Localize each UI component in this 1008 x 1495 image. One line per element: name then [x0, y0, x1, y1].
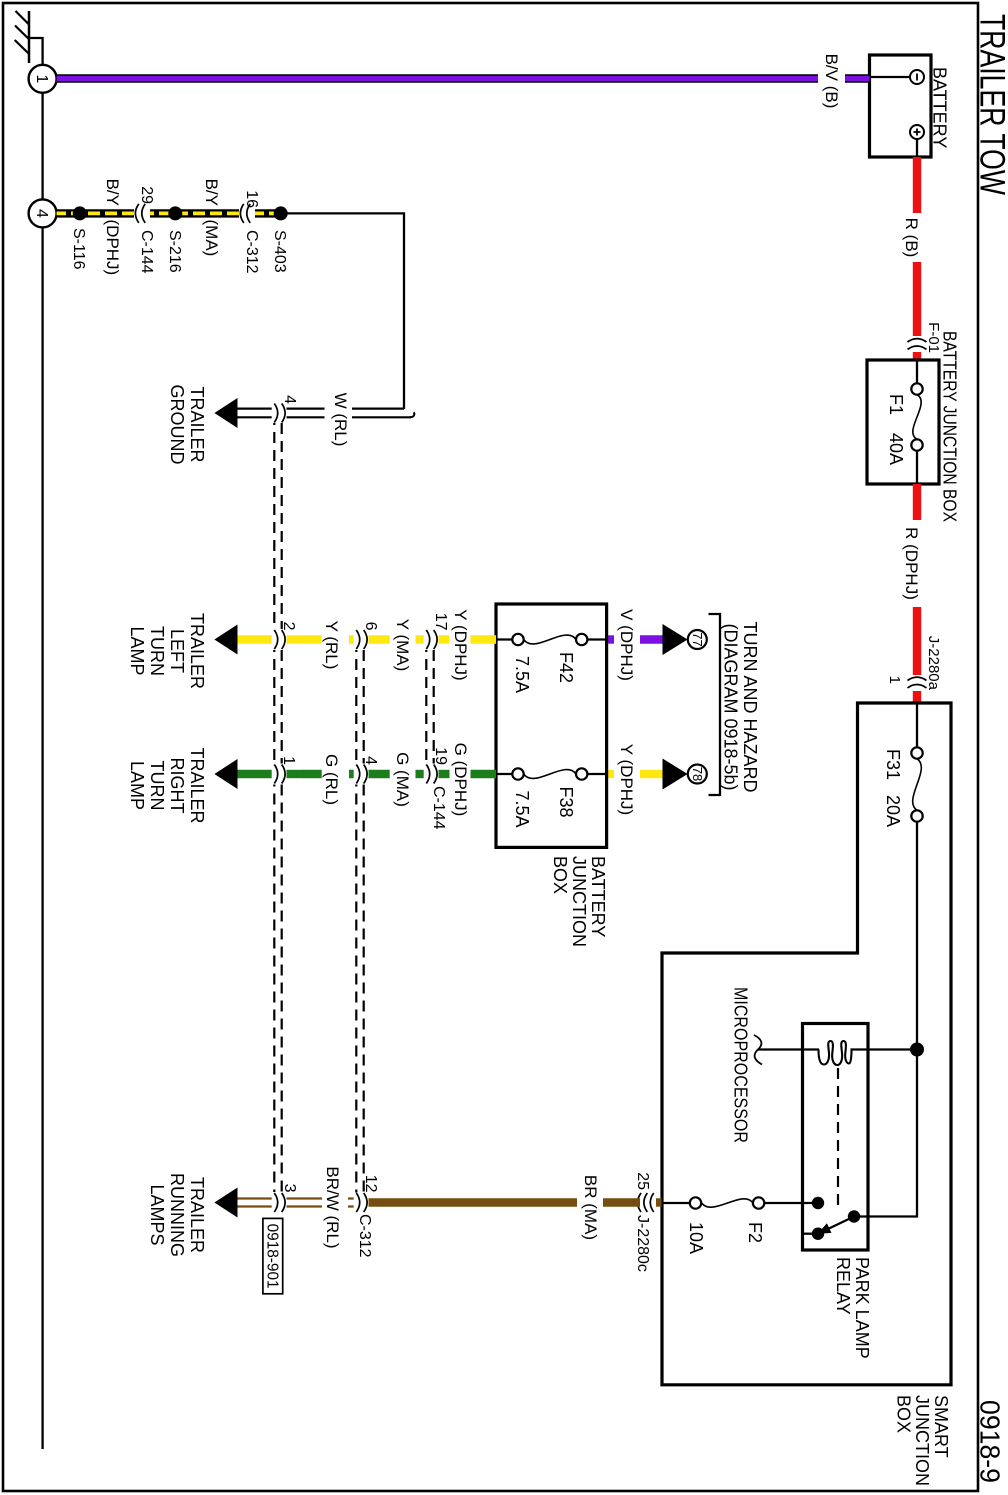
wire Y (RL) to arrow — [238, 635, 272, 643]
wire ground jog to node 1 — [28, 38, 43, 64]
wire Y (RL) — [287, 635, 354, 643]
wire G (DPHJ) from F38 — [439, 770, 497, 778]
connector J-2280c pin 25 — [634, 1172, 662, 1272]
node 78 (from turn and hazard diagram) — [688, 765, 707, 784]
trailer connector pin 2 — [274, 622, 297, 649]
svg-text:40A: 40A — [886, 433, 906, 465]
svg-text:C-144: C-144 — [430, 786, 447, 830]
svg-text:F-01: F-01 — [925, 322, 942, 353]
battery — [870, 55, 950, 157]
svg-text:7.5A: 7.5A — [512, 791, 532, 828]
svg-text:G (RL): G (RL) — [322, 754, 341, 805]
svg-text:W (RL): W (RL) — [331, 393, 350, 447]
svg-text:S-216: S-216 — [166, 230, 183, 273]
fuse F31 20A — [883, 703, 923, 827]
svg-text:V (DPHJ): V (DPHJ) — [617, 609, 636, 681]
svg-text:RELAY: RELAY — [833, 1257, 853, 1315]
svg-text:Y (RL): Y (RL) — [322, 621, 341, 670]
relay output contact to F2 — [764, 1197, 824, 1209]
svg-text:Y (DPHJ): Y (DPHJ) — [451, 609, 470, 680]
svg-text:(DPHJ): (DPHJ) — [103, 220, 122, 276]
trailer connector dashed line (pins 4-2-1-3) — [274, 423, 281, 1192]
svg-text:LAMP: LAMP — [127, 761, 147, 810]
connector F-01 — [908, 322, 943, 353]
svg-text:TRAILER: TRAILER — [187, 613, 207, 689]
connector C-144 pin 29 — [135, 186, 155, 273]
arrow from node 77 — [663, 624, 688, 655]
svg-text:0918-9: 0918-9 — [975, 1400, 1006, 1483]
svg-text:10A: 10A — [686, 1222, 706, 1254]
node 77 (from turn and hazard diagram) — [688, 630, 707, 649]
svg-text:4: 4 — [362, 756, 379, 765]
svg-text:BATTERY: BATTERY — [588, 856, 608, 937]
battery junction box (F42/F38) — [496, 604, 608, 947]
fuse F2 10A — [662, 1197, 765, 1254]
connector C-312 pin 6 — [356, 622, 379, 649]
svg-text:29: 29 — [138, 186, 155, 204]
battery negative terminal — [870, 70, 925, 84]
svg-text:20A: 20A — [883, 795, 903, 827]
svg-text:SMART: SMART — [931, 1395, 951, 1458]
svg-text:C-144: C-144 — [138, 230, 155, 274]
connector C-312 pin 4 — [356, 756, 379, 783]
junction node (dot) feeding relay coil — [910, 1043, 924, 1057]
svg-text:C-312: C-312 — [356, 1214, 373, 1258]
trailer connector pin 3 — [274, 1184, 298, 1212]
svg-text:3: 3 — [281, 1184, 298, 1193]
svg-text:TRAILER TOW: TRAILER TOW — [973, 14, 1008, 195]
trailer connector pin 4 — [274, 395, 298, 422]
splice S-403 — [271, 206, 288, 272]
svg-text:BOX: BOX — [550, 856, 570, 894]
svg-text:TURN AND HAZARD: TURN AND HAZARD — [740, 621, 760, 792]
fuse F38 7.5A — [496, 768, 607, 827]
splice S-216 — [166, 206, 183, 272]
relay coil lead to microprocessor — [758, 1048, 819, 1050]
wire Y (DPHJ) from F42 — [439, 635, 497, 643]
wire junction to relay coil — [851, 1048, 918, 1050]
svg-text:17: 17 — [432, 613, 449, 631]
svg-text:77: 77 — [690, 632, 705, 646]
svg-text:J-2280a: J-2280a — [925, 636, 942, 691]
svg-text:S-403: S-403 — [271, 230, 288, 273]
wire B/V (B) from battery negative to node 1 — [57, 74, 870, 83]
svg-text:4: 4 — [33, 209, 50, 218]
connector C-312 dashed line (pins 6-4-12) — [356, 650, 363, 1193]
svg-text:TRAILER: TRAILER — [187, 747, 207, 823]
svg-text:19: 19 — [432, 747, 449, 765]
svg-text:TURN: TURN — [147, 626, 167, 676]
arrow to trailer running lamps — [214, 1188, 237, 1218]
arrow to trailer right turn lamp — [214, 759, 237, 789]
connector C-144 dashed line (pins 17-19) — [426, 650, 433, 764]
battery junction box (F1) — [867, 331, 960, 522]
connector label box 0918-901 — [263, 1218, 283, 1293]
relay common contact — [848, 1210, 860, 1222]
svg-text:Y (DPHJ): Y (DPHJ) — [617, 744, 636, 815]
svg-text:J-2280c: J-2280c — [634, 1215, 651, 1272]
svg-text:JUNCTION: JUNCTION — [912, 1395, 932, 1486]
label TRAILER RUNNING LAMPS — [147, 1173, 207, 1257]
svg-text:B/V (B): B/V (B) — [822, 54, 841, 109]
svg-text:MICROPROCESSOR: MICROPROCESSOR — [731, 987, 751, 1143]
svg-text:BR/W (RL): BR/W (RL) — [323, 1166, 342, 1248]
wire G (RL) — [287, 770, 354, 778]
svg-text:PARK LAMP: PARK LAMP — [852, 1257, 872, 1359]
connector C-312 pin 12 — [356, 1175, 379, 1258]
svg-text:LAMPS: LAMPS — [147, 1184, 167, 1245]
wire ground bus long segment — [41, 227, 43, 1449]
wire Y (DPHJ) to fuse F38 — [607, 770, 663, 778]
trailer connector pin 1 — [274, 756, 297, 783]
svg-text:F1: F1 — [886, 394, 906, 415]
svg-text:1: 1 — [886, 676, 903, 684]
smart junction box outline — [662, 703, 951, 1486]
node 1 (ground circle 1) — [29, 65, 57, 93]
svg-text:(DIAGRAM 0918-5b): (DIAGRAM 0918-5b) — [721, 623, 741, 790]
wire R (B) battery to battery junction box — [913, 157, 921, 360]
svg-text:BR (MA): BR (MA) — [581, 1175, 600, 1240]
wire V (DPHJ) to fuse F42 — [607, 635, 663, 643]
relay actuation dashed link — [837, 1068, 839, 1207]
arrow from node 78 — [663, 759, 688, 790]
svg-text:G (MA): G (MA) — [393, 752, 412, 807]
svg-text:TURN: TURN — [147, 761, 167, 811]
fuse F42 7.5A — [496, 634, 607, 693]
wire thin link S-403 to trailer ground drop — [281, 213, 404, 409]
microprocessor squiggle — [754, 1035, 762, 1065]
svg-text:R (DPHJ): R (DPHJ) — [902, 527, 921, 600]
svg-text:R (B): R (B) — [902, 218, 921, 258]
relay NO contact to box edge — [803, 1228, 825, 1240]
svg-text:B/Y: B/Y — [103, 179, 122, 206]
svg-text:7.5A: 7.5A — [512, 656, 532, 693]
wire W (RL) trailer ground (white wire) — [237, 409, 414, 418]
svg-text:BOX: BOX — [894, 1395, 914, 1433]
wire F31 to relay common — [854, 822, 917, 1217]
svg-text:1: 1 — [33, 74, 50, 83]
turn and hazard source bracket — [709, 614, 761, 795]
svg-text:F38: F38 — [556, 787, 576, 818]
connector J-2280a pin 1 — [886, 636, 942, 691]
svg-text:B/Y: B/Y — [202, 179, 221, 206]
svg-text:LAMP: LAMP — [127, 626, 147, 675]
svg-text:GROUND: GROUND — [167, 385, 187, 465]
wire Y (MA) — [369, 635, 424, 643]
relay coil — [819, 1041, 852, 1065]
arrow to trailer ground — [214, 398, 237, 428]
relay blade with arrow — [819, 1217, 854, 1234]
svg-text:6: 6 — [362, 622, 379, 631]
svg-text:TRAILER: TRAILER — [187, 1177, 207, 1253]
label TRAILER LEFT TURN LAMP — [127, 613, 207, 689]
arrow to trailer left turn lamp — [214, 625, 237, 655]
svg-text:RIGHT: RIGHT — [167, 758, 187, 814]
svg-text:JUNCTION: JUNCTION — [569, 856, 589, 947]
ground symbol (chassis ground, bottom-left) — [15, 11, 29, 63]
svg-text:F31: F31 — [883, 749, 903, 780]
svg-text:LEFT: LEFT — [167, 629, 187, 673]
wire G (MA) — [369, 770, 424, 778]
fuse F1 40A — [886, 360, 923, 484]
svg-text:78: 78 — [690, 767, 705, 781]
svg-text:S-116: S-116 — [70, 228, 87, 270]
svg-text:(MA): (MA) — [202, 220, 221, 257]
svg-text:Y (MA): Y (MA) — [393, 619, 412, 672]
label TRAILER RIGHT TURN LAMP — [127, 747, 207, 823]
svg-text:2: 2 — [280, 622, 297, 631]
wire B/Y ground chain from node 4 — [57, 209, 281, 217]
wire R (DPHJ) to smart junction box — [913, 484, 921, 703]
wire BR/W (RL) to trailer running lamps (double line) — [238, 1199, 354, 1207]
connector C-144 pin 17 — [426, 613, 449, 830]
wire BR (MA) running lamps feed — [369, 1198, 641, 1206]
svg-text:F42: F42 — [556, 652, 576, 683]
node 4 (ground circle 4) — [29, 199, 57, 227]
svg-text:G (DPHJ): G (DPHJ) — [451, 743, 470, 817]
svg-text:BATTERY JUNCTION BOX: BATTERY JUNCTION BOX — [940, 331, 960, 522]
svg-text:BATTERY: BATTERY — [930, 67, 950, 148]
svg-text:1: 1 — [280, 756, 297, 765]
connector C-312 pin 16 — [240, 190, 260, 273]
svg-text:RUNNING: RUNNING — [167, 1173, 187, 1257]
svg-text:16: 16 — [243, 190, 260, 208]
svg-text:25: 25 — [634, 1172, 651, 1190]
svg-text:0918-901: 0918-901 — [264, 1224, 281, 1289]
wire G (RL) to arrow — [238, 770, 272, 778]
battery positive terminal — [910, 125, 924, 157]
svg-text:4: 4 — [281, 395, 298, 404]
svg-text:C-312: C-312 — [243, 230, 260, 274]
svg-text:TRAILER: TRAILER — [187, 386, 207, 462]
connector C-144 pin 19 — [426, 747, 449, 783]
svg-text:F2: F2 — [745, 1222, 765, 1243]
park lamp relay box — [803, 1024, 873, 1359]
splice S-116 — [70, 206, 87, 269]
wire ground bus segment node1-node4 — [41, 93, 43, 200]
label TRAILER GROUND — [167, 385, 207, 465]
